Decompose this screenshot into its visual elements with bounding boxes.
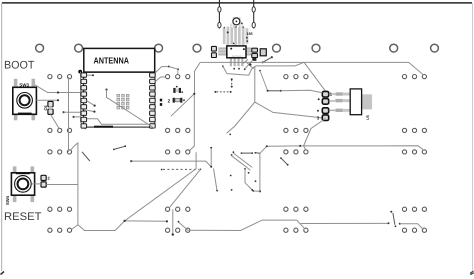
wire H1 to mid vertical [195, 62, 201, 93]
USB finger tip dots [224, 26, 245, 28]
board corner mark bottom-right [470, 271, 474, 275]
wire C7 to via [46, 184, 78, 186]
mounting hole H2 [75, 44, 83, 52]
node below H2 [259, 70, 261, 72]
IC U2 bottom pins [222, 58, 246, 70]
node bottom right 1 [388, 222, 390, 224]
pushbutton SW4 (RESET) body [11, 173, 34, 195]
board edge top [2, 2, 472, 4]
wire bottom right stub [393, 213, 395, 225]
USB pin pad 2 [218, 22, 221, 27]
mounting hole H1 [36, 44, 44, 52]
capacitor C7 [41, 175, 46, 187]
via cluster B2 [166, 128, 190, 132]
pushbutton SW4 top bar [16, 172, 30, 174]
wire module pad diag 2 [87, 110, 95, 112]
via cluster B3 [166, 150, 190, 154]
mounting hole H7 [390, 44, 398, 52]
regulator U5 tab [362, 94, 373, 109]
board corner mark bottom-left [1, 272, 5, 275]
node module inner [105, 89, 107, 91]
wire module pad diag 1 [87, 101, 95, 106]
node module diag 2 [93, 111, 95, 113]
wire center horizontal [300, 146, 424, 151]
pushbutton SW3 (BOOT) pads [14, 79, 35, 120]
via cluster A4 [48, 207, 72, 211]
mounting hole H5 [273, 44, 281, 52]
capacitor C8 left of U2 [212, 46, 217, 57]
pad pair right of module [160, 99, 162, 106]
wire C10 node diag [263, 57, 272, 62]
via cluster C4 [284, 207, 308, 211]
via cluster A1 [48, 75, 72, 79]
node bottom B [178, 221, 180, 223]
svg-text:U5: U5 [366, 115, 370, 120]
wire SW4 to C7 [32, 183, 41, 185]
wire node to module pad [64, 111, 82, 113]
USB pin pad 3 [252, 7, 255, 12]
dashed stub vertical [231, 78, 233, 87]
capacitor C6 [48, 101, 53, 114]
wire nc2 [241, 152, 254, 154]
wire mid vertical stub [210, 147, 212, 168]
module body U1 [84, 72, 155, 127]
svg-text:185: 185 [247, 32, 253, 36]
capacitor C10 [260, 49, 266, 56]
module U1 thermal pad grid [117, 94, 129, 109]
capacitor C1 [322, 91, 328, 104]
pushbutton SW4 (RESET) pads [13, 166, 34, 202]
via cluster D5 [402, 228, 426, 232]
IC U2 right pins [246, 47, 251, 55]
pushbutton SW4 (RESET) plunger rings [15, 176, 32, 193]
wire C6 to via [51, 114, 60, 128]
regulator U5 pins [335, 92, 351, 112]
node bottom right 3 [395, 225, 397, 227]
USB pin line left [218, 0, 220, 29]
node BOOT net [57, 91, 59, 93]
wire node to via B1 [177, 70, 179, 75]
capacitor C3 [322, 108, 328, 121]
regulator U5 body [350, 89, 361, 115]
node module feed stub [87, 74, 93, 76]
wire module to mid vertical [171, 94, 194, 151]
wire stub bottom [253, 190, 260, 192]
wire bottom vertical B [172, 209, 174, 234]
module U1 right pads [150, 73, 156, 128]
via cluster A2 [48, 128, 72, 132]
IC U2 body [227, 46, 246, 58]
wire via column BOOT [68, 77, 70, 152]
antenna feed dot [78, 70, 82, 74]
via cluster B4 [166, 207, 190, 211]
mounting hole H3 [155, 44, 163, 52]
wire center-left link [260, 146, 300, 191]
wire module bottom path [87, 119, 148, 125]
wire SW3 to module [35, 85, 83, 93]
node SW3 right [57, 99, 59, 101]
wire C3 to via [304, 119, 326, 151]
via cluster C5 [284, 228, 308, 232]
node right pad 1 [168, 66, 170, 68]
via cluster B5 [166, 228, 190, 232]
wire node to stub [260, 71, 268, 91]
mounting hole H4 [193, 44, 201, 52]
wire bottom right end [399, 223, 424, 230]
pushbutton SW3 (BOOT) body [13, 87, 37, 114]
wire mid horizontal [130, 160, 211, 167]
svg-text:C6: C6 [43, 105, 48, 111]
wire branch to lower left [227, 102, 255, 133]
wire nc3 [255, 152, 260, 154]
wire long diagonal [125, 152, 197, 221]
IC U2 pin dot 2 [243, 48, 245, 50]
wire long top-right 1 [256, 62, 304, 66]
mounting hole H8 [431, 44, 439, 52]
svg-text:AMS1117: AMS1117 [232, 55, 244, 58]
node module diag 1 [94, 105, 96, 107]
wire antenna feed [81, 72, 86, 130]
svg-text:ANTENNA: ANTENNA [94, 56, 130, 66]
module U1 bottom bar [94, 126, 113, 128]
node left of C3 [317, 110, 319, 112]
pushbutton SW3 bottom bar [18, 113, 32, 115]
wire module inner vertical [107, 90, 155, 129]
node left of C1 [318, 98, 320, 100]
capacitor C9 [252, 48, 258, 61]
via cluster D1 [402, 75, 426, 79]
node floating [255, 180, 257, 182]
USB shell hole [233, 18, 240, 25]
wire SW3 right [36, 99, 58, 101]
wire RESET down [71, 143, 78, 230]
svg-text:2: 2 [168, 99, 171, 104]
wire to C1 [281, 90, 322, 93]
via cluster A3 [48, 150, 72, 154]
mounting hole H6 [312, 44, 320, 52]
via cluster C3 [284, 150, 308, 154]
node bottom right 2 [390, 211, 392, 213]
USB connector J1 body fingers [223, 26, 249, 45]
via cluster D4 [402, 207, 426, 211]
wire bracket under U2 [223, 66, 256, 75]
wire node to node [169, 67, 178, 70]
svg-text:SW4: SW4 [5, 195, 10, 205]
svg-text:RESET: RESET [4, 211, 42, 223]
resistor R4 [173, 86, 183, 93]
wire C1 to U5 [329, 94, 335, 110]
node near USB hole [241, 22, 243, 24]
wire diag pair [231, 151, 252, 170]
wire node to module pad 2 [74, 116, 82, 118]
board edge left [1, 3, 2, 271]
wire vertical-diag path [244, 168, 253, 191]
module U1 left pads [81, 73, 87, 128]
wire short mid drop [214, 169, 219, 192]
node bottom-left [166, 220, 168, 222]
wire bottom center [188, 220, 305, 230]
wire short diag left [82, 152, 90, 161]
IC U2 left pins [218, 47, 227, 55]
wire vertical drop right of U2 [255, 66, 322, 118]
via cluster A5 [48, 228, 72, 232]
wire nc4 [230, 175, 233, 191]
via cluster D3 [402, 150, 426, 154]
node module pad row 2 [73, 116, 75, 118]
USB pin pad 4 [252, 22, 255, 27]
node mid vertical [193, 93, 195, 95]
via cluster D2 [402, 128, 426, 132]
wire long top-right 2 [200, 62, 423, 74]
node module pad row [63, 111, 65, 113]
wire bottom long right [301, 222, 389, 224]
resistor R5 [173, 98, 185, 103]
wire module right pad 2 [155, 77, 165, 82]
wire crossing below IC [243, 59, 254, 69]
node center horizontal [299, 145, 301, 147]
wire dash-end to via [169, 169, 201, 208]
svg-text:BOOT: BOOT [4, 60, 35, 72]
dashed wire mid [161, 169, 202, 171]
pushbutton SW3 (BOOT) plunger rings [17, 93, 33, 109]
via cluster C2 [284, 128, 308, 132]
wire short seg [113, 145, 126, 150]
dashed stub horizontal [214, 91, 231, 93]
USB shell tall fingers [230, 17, 243, 28]
antenna box [84, 48, 155, 72]
via cluster B1 [166, 75, 190, 79]
svg-text:SW3: SW3 [19, 83, 29, 88]
board edge right [472, 3, 473, 270]
via cluster C1 [284, 75, 308, 79]
USB pin pad 1 [218, 7, 221, 12]
USB pin line right [253, 0, 255, 29]
node vertical bottom [259, 190, 261, 192]
IC U2 pin1 dot [230, 48, 232, 50]
wire stub with nodes [267, 90, 282, 92]
node crossing [249, 63, 251, 65]
wire H1 to C1 [304, 62, 326, 91]
USB body pin dots [227, 31, 249, 44]
node right of C10 [271, 56, 273, 58]
wire bottom-left zigzag [78, 221, 167, 231]
wire module right pad 1 [155, 67, 168, 73]
node diag pair [280, 157, 289, 166]
node right pad 2 [177, 68, 179, 70]
node nc1 [229, 134, 231, 136]
